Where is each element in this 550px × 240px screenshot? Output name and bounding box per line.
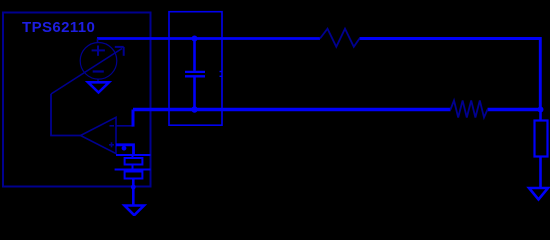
label TPS62110 (22, 19, 95, 36)
wire FB node horizontal (116, 154, 151, 156)
wire R2 to ground (132, 179, 135, 205)
resistor R2 box (125, 172, 143, 179)
wire minus input step (116, 125, 133, 127)
capacitor C plates (185, 72, 205, 76)
control arrow shaft (51, 49, 122, 95)
junction right bus corner (538, 107, 544, 113)
wire plus input (116, 145, 134, 155)
wire FB bottom bus (133, 108, 451, 111)
capacitor block box (169, 12, 222, 126)
wire minus step vertical (132, 110, 135, 127)
ground under source (88, 82, 109, 92)
wire to load resistor (539, 110, 542, 121)
ground under divider (125, 206, 145, 216)
wire source top stub (97, 39, 99, 43)
op-amp U1 error amplifier (81, 117, 117, 153)
wire load to ground (539, 157, 542, 189)
resistor R_fb zigzag (451, 101, 488, 118)
wire op-amp output to source control (51, 94, 81, 136)
op-amp minus sign (110, 125, 115, 127)
junction divider ground at box edge (131, 185, 136, 190)
IC box TPS62110 (3, 13, 151, 187)
capacitor C bottom lead (193, 77, 196, 109)
junction plus input (122, 146, 127, 151)
resistor R1 box (125, 158, 143, 165)
wire source bottom stub (97, 79, 99, 82)
op-amp plus sign (109, 142, 114, 147)
wire VOUT top bus (97, 37, 320, 40)
wire R1-R2 stub (132, 165, 134, 172)
resistor R_top zigzag (320, 29, 360, 47)
wire bottom bus right of R (488, 108, 542, 111)
wire top bus right of R (360, 39, 541, 110)
control arrow head (115, 47, 124, 56)
resistor R_load box (535, 121, 548, 157)
wire R1 top stub (132, 155, 134, 158)
junction cap bottom (191, 106, 197, 112)
source minus sign (93, 70, 104, 72)
capacitor C top lead (193, 39, 196, 71)
source VREF circle (80, 43, 117, 80)
ground right (529, 188, 548, 200)
wire divider tap (115, 169, 151, 171)
cap box tick marks (220, 72, 223, 77)
junction cap top (192, 36, 198, 42)
source plus sign (92, 46, 105, 56)
